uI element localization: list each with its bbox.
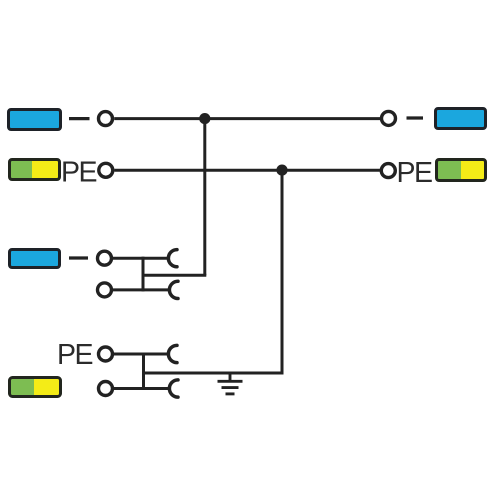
junction B (276, 165, 287, 176)
marker green-yellow row2 left (11, 161, 59, 178)
wire vertical A (junction A down to row3 link) (203, 119, 206, 276)
marker green-yellow row2 right (438, 161, 484, 179)
wire link row4 to vertical B (144, 372, 284, 375)
dash row3 (69, 256, 88, 259)
clamp circle row1 left (99, 112, 113, 126)
junction A (199, 113, 210, 124)
dash top-right (407, 116, 424, 119)
marker blue top-right (436, 109, 486, 129)
wire row3 upper (113, 257, 168, 260)
clamp circle row3 lower (98, 283, 112, 297)
clamp circle row2 left (99, 163, 113, 177)
marker blue row3 (10, 250, 60, 268)
plug contact row4 lower (169, 380, 178, 397)
dash top-left (69, 117, 90, 120)
plug contact row3 lower (169, 281, 178, 298)
svg-text:PE: PE (61, 157, 97, 189)
clamp circle row2 right (381, 164, 395, 178)
svg-text:PE: PE (397, 157, 433, 189)
marker blue top-left (9, 110, 61, 130)
clamp circle row4 lower (99, 382, 113, 396)
wire row3 lower (113, 288, 169, 291)
plug contact row4 upper (168, 345, 177, 362)
wire row2 (115, 169, 381, 172)
plug contact row3 upper (168, 250, 177, 267)
clamp circle row1 right (382, 111, 396, 125)
wire bar row4 (142, 353, 145, 391)
svg-text:PE: PE (57, 339, 93, 371)
wire row4 lower (114, 387, 169, 390)
marker green-yellow row4 (11, 379, 60, 395)
wire vertical B (junction B down to ground link) (281, 170, 284, 373)
wire bar row3 (142, 257, 145, 292)
wire row4 upper (114, 353, 168, 356)
wire link row3 to vertical A (143, 274, 206, 277)
clamp circle row4 upper (99, 347, 113, 361)
ground symbol (218, 373, 243, 394)
wire row1 (114, 117, 380, 120)
clamp circle row3 upper (98, 251, 112, 265)
